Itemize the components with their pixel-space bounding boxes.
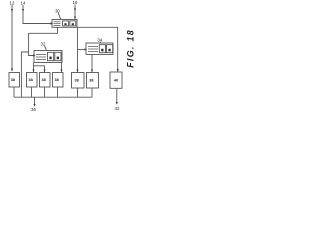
svg-text:32: 32 (41, 41, 46, 46)
svg-text:38: 38 (11, 78, 15, 82)
svg-text:FIG. 18: FIG. 18 (126, 29, 136, 68)
svg-text:14: 14 (21, 1, 26, 6)
svg-text:38: 38 (54, 78, 58, 82)
svg-text:38: 38 (89, 78, 93, 82)
svg-text:38: 38 (41, 78, 45, 82)
svg-text:38: 38 (28, 78, 32, 82)
svg-text:40: 40 (114, 79, 118, 83)
svg-text:34: 34 (97, 38, 102, 43)
svg-text:38: 38 (74, 78, 78, 82)
svg-text:16: 16 (73, 0, 78, 5)
svg-text:12: 12 (10, 1, 15, 6)
svg-text:36: 36 (31, 107, 36, 112)
svg-text:42: 42 (115, 106, 120, 111)
svg-text:30: 30 (55, 8, 60, 13)
